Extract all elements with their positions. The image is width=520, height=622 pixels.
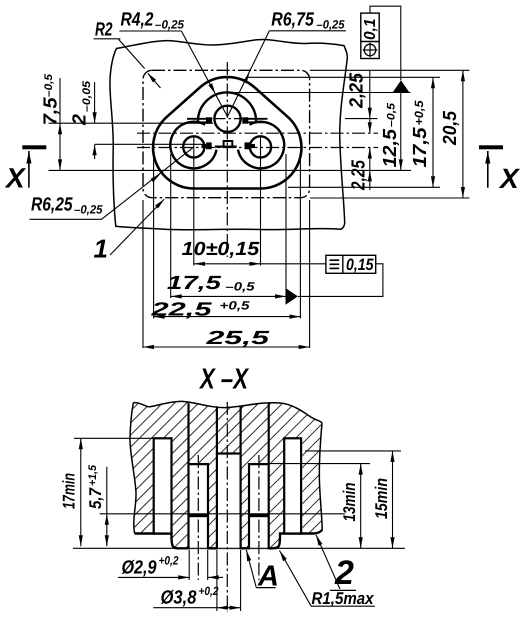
svg-text:R4,2: R4,2	[121, 9, 154, 30]
extension line slot level left	[49, 122, 214, 124]
extension lines diam 2,9	[188, 550, 190, 580]
svg-text:X: X	[498, 163, 520, 194]
plate blank outline (break lines), top view	[110, 39, 347, 229]
svg-text:+1,5: +1,5	[87, 464, 99, 486]
dimension 2,25 top	[369, 70, 371, 133]
right pin hole outer edge extending to top break	[268, 403, 270, 465]
svg-text:R2: R2	[95, 20, 113, 41]
extension line plate bottom right	[310, 197, 470, 199]
inner recess arc around right pin	[238, 122, 284, 169]
leader item 1	[110, 199, 164, 255]
svg-text:15min: 15min	[372, 478, 391, 519]
slot bar left of right pin	[250, 144, 256, 148]
central bridge line	[215, 146, 237, 148]
svg-text:Ø3,8: Ø3,8	[161, 588, 197, 609]
top pin hole circle	[214, 106, 240, 132]
section outer break lines	[133, 401, 322, 423]
leader R4,2	[181, 31, 227, 117]
horizontal centerline	[137, 132, 378, 134]
right pin hole counterbore step	[249, 514, 269, 517]
centre pin hole	[217, 454, 241, 550]
extension line lower slot top left	[95, 143, 202, 145]
dimension 5,7+1,5	[106, 467, 108, 547]
reference line gauge face	[73, 547, 405, 549]
svg-text:–0,5: –0,5	[226, 280, 255, 294]
extension line 17,5 left	[170, 154, 172, 298]
extension line trefoil top right	[228, 92, 411, 94]
key notch square left of top pin	[206, 117, 212, 123]
leader R2	[119, 39, 145, 68]
extension line trefoil bottom	[49, 169, 412, 171]
ledge slot right of top pin	[248, 118, 268, 120]
svg-text:0,15: 0,15	[346, 256, 374, 274]
extension line top pin centre right	[345, 118, 378, 120]
svg-text:13min: 13min	[340, 483, 359, 522]
svg-text:17min: 17min	[60, 473, 79, 509]
section block hatched body	[130, 401, 322, 548]
svg-text:+0,5: +0,5	[412, 100, 426, 125]
key notch square right of top pin	[242, 117, 248, 123]
svg-text:Ø2,9: Ø2,9	[122, 558, 157, 579]
svg-text:17,5: 17,5	[410, 127, 431, 167]
cloverleaf outer contour	[153, 77, 301, 188]
svg-text:R6,75: R6,75	[271, 9, 314, 30]
section mark X right	[479, 145, 503, 149]
extension line cloverleaf bottom right	[288, 186, 440, 188]
section centreline centre	[226, 402, 228, 612]
svg-text:25,5: 25,5	[205, 328, 270, 349]
datum triangle on 17,5 dimension	[286, 288, 298, 305]
section mark X left	[22, 145, 46, 149]
reference line step level	[100, 513, 345, 515]
dimension 2,25 bottom	[369, 148, 371, 191]
section centreline right pin	[258, 455, 260, 580]
svg-text:R6,25: R6,25	[31, 195, 73, 216]
extension line 17min top	[74, 437, 154, 439]
right slot recess	[284, 438, 301, 533]
dimension 2-0,05	[94, 82, 96, 123]
svg-text:+0,2: +0,2	[159, 554, 179, 568]
leader R6,25	[102, 147, 194, 219]
extension line right pin centre	[260, 136, 262, 266]
leader item 2	[316, 535, 340, 589]
inner recess arc R4,2 around top pin	[198, 92, 256, 121]
vertical centerline	[226, 62, 228, 257]
svg-text:–0,25: –0,25	[317, 17, 345, 31]
svg-text:20,5: 20,5	[440, 111, 461, 146]
extension line 25,5 right	[309, 200, 311, 348]
left slot recess	[154, 438, 172, 533]
extension line cloverleaf top right	[246, 76, 440, 78]
dimension 7,5-0,5	[59, 78, 61, 170]
ledge slot left of top pin	[187, 118, 207, 120]
svg-text:10±0,15: 10±0,15	[182, 239, 260, 260]
svg-text:X –X: X –X	[198, 364, 249, 396]
extension line 25,5 left	[142, 200, 144, 348]
svg-text:7,5: 7,5	[41, 97, 62, 125]
dimension 17min	[80, 438, 82, 546]
section centreline left pin	[197, 455, 199, 580]
dimension diam 3,8+0,2	[153, 607, 240, 609]
svg-text:2,25: 2,25	[349, 160, 370, 191]
gauge plate dash-dot rectangle (pos.1 outline)	[143, 70, 310, 197]
dimension 20,5	[462, 70, 464, 198]
svg-text:17,5: 17,5	[167, 273, 222, 294]
svg-text:2: 2	[334, 554, 354, 592]
dimension 12,5-0,5	[400, 93, 402, 171]
reference line 15min level	[305, 450, 401, 452]
centre hole left edge extending to top break	[216, 406, 218, 453]
symmetry tolerance frame 0,15	[326, 255, 376, 273]
central key tab	[224, 141, 233, 147]
dimension 22,5+0,5	[154, 316, 301, 318]
leader A	[246, 550, 256, 588]
svg-text:12,5: 12,5	[380, 129, 401, 168]
svg-text:+0,5: +0,5	[220, 299, 250, 313]
left pin hole circle	[183, 136, 204, 157]
key notch square right of left pin	[206, 142, 212, 149]
svg-text:0,1: 0,1	[362, 18, 379, 40]
slot bar right of left pin	[202, 144, 208, 148]
dimension 25,5	[143, 346, 310, 348]
svg-text:22,5: 22,5	[150, 299, 212, 320]
extension line 22,5 right	[299, 152, 301, 319]
svg-text:2: 2	[70, 114, 91, 126]
dimension diam 2,9+0,2	[118, 576, 189, 578]
position tolerance frame 0,1	[361, 13, 379, 58]
reference line 13min level	[270, 463, 370, 465]
left pin hole counterbore step	[189, 514, 209, 517]
extension line left pin centre	[193, 136, 195, 266]
left pin hole	[189, 464, 209, 549]
centre hole right edge extending to top break	[240, 406, 242, 453]
extension line 22,5 left	[153, 152, 155, 319]
extension line 17,5 right	[285, 154, 287, 298]
svg-text:–0,25: –0,25	[155, 17, 184, 31]
right pin hole	[249, 464, 269, 549]
datum triangle 12,5	[393, 80, 410, 92]
svg-text:R1,5max: R1,5max	[312, 589, 375, 608]
svg-text:–0,5: –0,5	[386, 102, 398, 127]
leader R6,75	[228, 31, 270, 117]
svg-text:5,7: 5,7	[86, 487, 105, 509]
inner recess arc around left pin	[170, 122, 216, 169]
dimension 13min	[360, 464, 362, 549]
section bottom face contour	[135, 530, 323, 548]
dimension 17,5+0,5	[432, 77, 434, 187]
leader from datum to tolerance frame	[298, 264, 383, 297]
dimension 17,5-0,5	[171, 295, 286, 297]
horizontal centerline through lower pins (section plane)	[137, 147, 378, 149]
right pin hole circle	[250, 136, 271, 157]
left pin hole outer edge extending to top break	[187, 403, 189, 464]
svg-text:2,25: 2,25	[347, 73, 368, 109]
horizontal centerline through top pin	[197, 118, 257, 120]
svg-text:1: 1	[94, 234, 108, 264]
leader frame 0,1 to datum triangle	[370, 6, 401, 80]
extension lines diam 3,8	[216, 550, 218, 611]
svg-text:–0,25: –0,25	[74, 203, 103, 217]
svg-text:–0,5: –0,5	[43, 73, 55, 97]
svg-text:X: X	[4, 162, 27, 193]
dimension 10±0,15	[194, 263, 326, 265]
extension line plate top right	[310, 69, 470, 71]
leader R1,5max	[280, 551, 312, 607]
svg-text:–0,05: –0,05	[81, 80, 93, 112]
dimension 15min	[392, 451, 394, 548]
svg-text:+0,2: +0,2	[199, 584, 219, 598]
key notch square left of right pin	[245, 142, 251, 149]
